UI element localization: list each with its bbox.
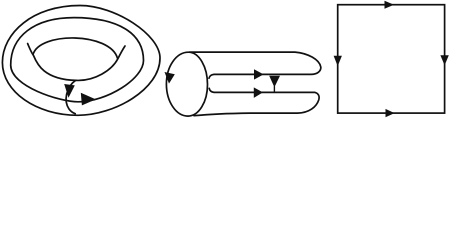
cylinder lower slit arrowhead: [254, 87, 263, 98]
torus hole back rim: [33, 38, 118, 58]
square right edge arrowhead: [440, 55, 448, 65]
square top edge arrowhead: [385, 1, 395, 9]
torus meridian arrowhead: [64, 84, 75, 98]
square bottom edge arrowhead: [386, 109, 395, 117]
torus outer ellipse: [2, 6, 160, 116]
cylinder upper slit arrowhead: [254, 69, 264, 79]
torus longitude arrowhead: [81, 93, 96, 106]
square left edge arrowhead: [334, 56, 342, 66]
square fundamental polygon: [338, 5, 445, 113]
torus hole front rim: [28, 44, 125, 81]
cylinder seam arrowhead: [269, 76, 280, 87]
cylinder cap-circle arrowhead: [165, 72, 175, 84]
cylinder seam vertical segment: [273, 87, 275, 93]
torus meridian arc: [66, 80, 75, 113]
cylinder top outline and upper-right cap and upper slit edge: [190, 52, 321, 78]
cylinder lower slit edge, lower-right cap and bottom outline: [194, 88, 319, 115]
cylinder left cap ellipse: [166, 52, 207, 116]
torus longitude circle (middle ellipse): [11, 18, 144, 102]
